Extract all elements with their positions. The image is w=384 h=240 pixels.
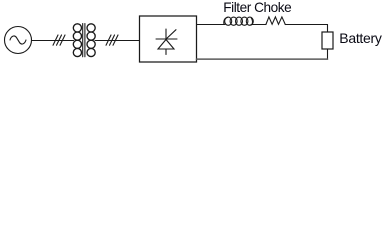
choke resistance zigzag [266,17,285,25]
transformer T1 core [83,24,85,57]
wire from resistor to battery [285,24,327,26]
filter choke inductor L1 [224,17,253,25]
wire between choke coil and resistor [251,24,266,26]
transformer T1 secondary winding [87,24,95,57]
ac source G1 [5,27,32,54]
top output wire from rectifier [197,24,226,26]
battery top lead [327,25,329,33]
bottom return wire from rectifier to battery [197,58,328,60]
label Filter Choke [223,0,291,15]
svg-text:Battery: Battery [339,30,382,46]
rectifier box [140,16,197,62]
label Battery [339,30,382,46]
svg-text:Filter Choke: Filter Choke [223,0,291,15]
thyristor SCR inside rectifier box [156,29,177,55]
transformer T1 primary winding [73,24,81,57]
wire from source to transformer primary [32,40,74,42]
three-phase slash marks on rectifier input wire [106,35,118,45]
wire from transformer secondary to rectifier box [95,40,139,42]
battery B1 [322,32,333,49]
battery bottom lead [327,49,329,59]
three-phase slash marks on source wire [53,35,65,45]
